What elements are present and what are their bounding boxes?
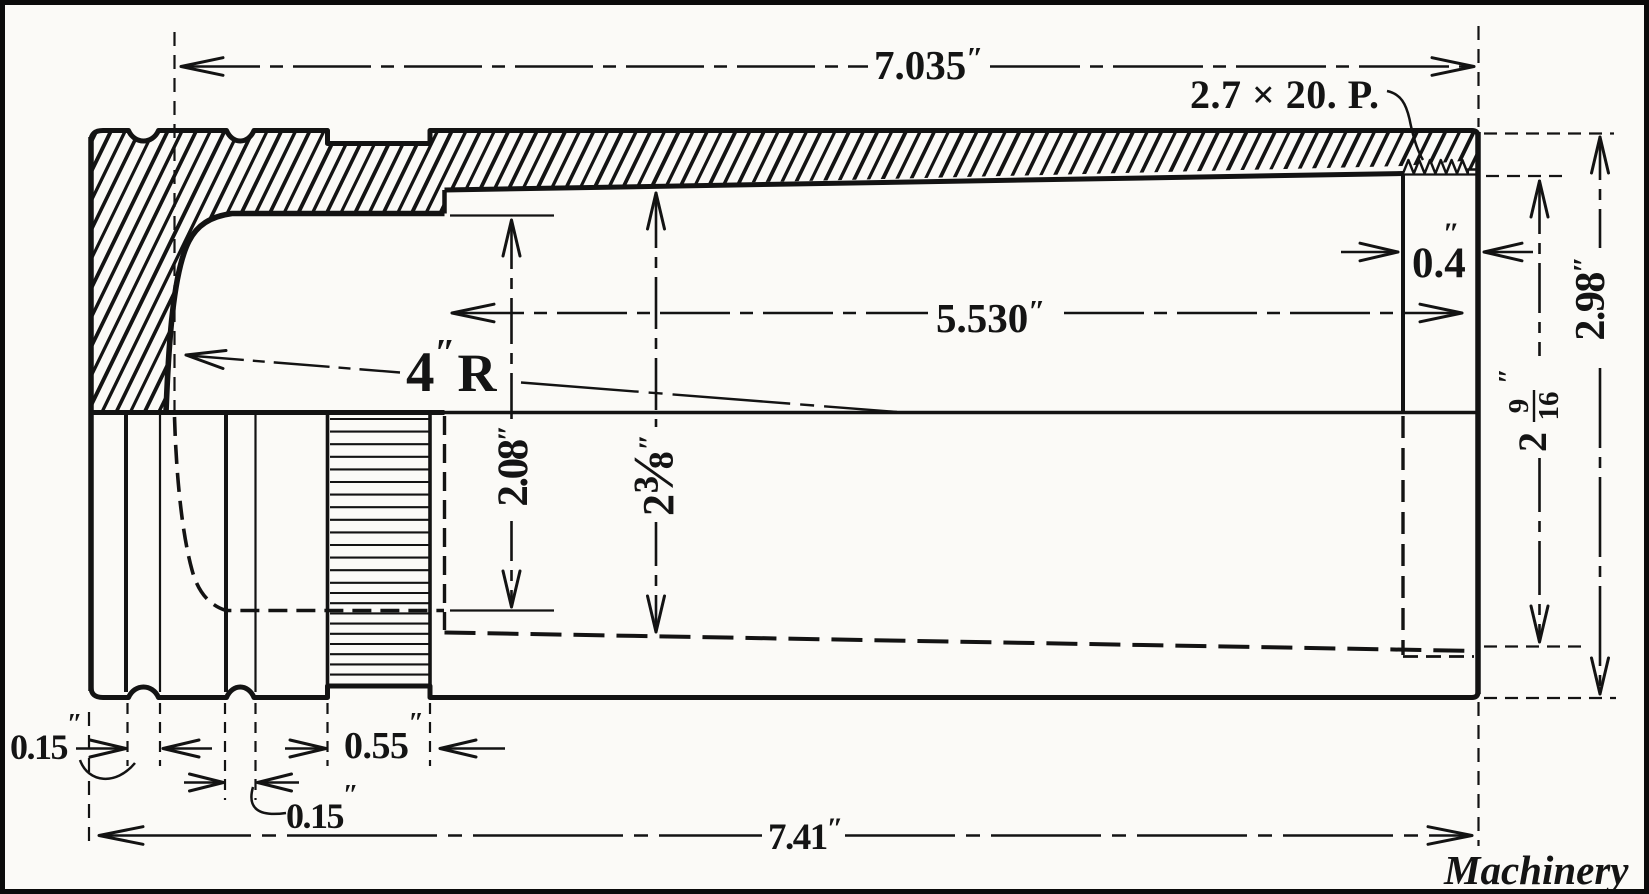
arrowhead 2.08 top: [503, 220, 520, 256]
arrowhead 0.4 left: [1360, 243, 1398, 261]
hidden bore step: [443, 416, 446, 630]
bore step at start of taper: [442, 190, 447, 214]
arrowhead 0.55 right: [440, 740, 476, 757]
arrowhead 7.41 right: [1428, 827, 1472, 845]
arrow shaft 0.55 left: [285, 747, 323, 750]
extension line 2.08 top: [450, 214, 554, 216]
leader curve 2.7x20P: [1387, 91, 1423, 160]
extension 2.98 top: [1484, 132, 1614, 134]
dimension line 2-3/8 lower: [655, 522, 658, 629]
right end face: [1475, 132, 1481, 694]
dimension text 2-3/8 (rotated): [621, 434, 686, 516]
arrow shaft 0.4 left: [1341, 251, 1396, 254]
dimension text 2.98 (rotated): [1566, 257, 1614, 340]
svg-text:16: 16: [1533, 392, 1565, 421]
arrowhead 0.4 right: [1484, 243, 1522, 261]
arrowhead 7.035 left: [181, 58, 223, 76]
arrow shaft 0.15 groove1 left: [76, 747, 122, 750]
extension band left: [326, 703, 328, 766]
arrowhead 2-3/8 bottom: [648, 596, 665, 632]
arrow shaft groove1 right: [165, 747, 212, 750]
left end face: [88, 137, 94, 691]
tapered bore line: [445, 174, 1404, 191]
arrowhead 2.08 bottom: [503, 571, 520, 607]
part outer top edge with grooves and relief band: [91, 131, 1478, 144]
svg-text:″: ″: [1443, 217, 1460, 250]
svg-text:2.7 × 20. P.: 2.7 × 20. P.: [1190, 72, 1380, 117]
thread profile 2.7 x 20 P: [1403, 160, 1476, 174]
leader arc 0.15 groove1: [80, 760, 135, 779]
dimension line 7.41 right part: [845, 834, 1470, 837]
dimension line 5.530 right part: [1064, 312, 1460, 315]
dimension line 2.08 lower: [510, 521, 513, 604]
extension groove1 left: [126, 703, 128, 766]
dimension line 7.41 left part: [101, 834, 762, 837]
hidden thread root lower: [1403, 655, 1474, 658]
arrow shaft 0.55 right: [442, 747, 505, 750]
thread band fine lines: [330, 419, 429, 675]
extension line 7.035 left: [173, 32, 175, 411]
arrowhead 2-9/16 top: [1531, 181, 1548, 217]
extension 2-9/16 bottom: [1484, 645, 1582, 647]
arrow shaft 0.15 groove2 left: [184, 781, 219, 784]
extension 2.98 bottom: [1484, 697, 1616, 699]
groove 1 right edge: [159, 415, 161, 692]
extension 2-9/16 top: [1486, 175, 1566, 177]
arrowhead groove1 right: [163, 740, 199, 757]
arrowhead 7.41 left: [99, 827, 143, 845]
svg-text:Machinery: Machinery: [1443, 847, 1629, 893]
arrowhead 2.98 bottom: [1592, 658, 1609, 694]
extension groove2 left: [224, 703, 226, 800]
svg-text:2: 2: [1510, 432, 1555, 452]
centerline (thin): [445, 411, 1479, 415]
arrow shaft 0.15 groove2 right: [260, 781, 300, 784]
section hatching: [0, 124, 1649, 424]
arrowhead 5.530 left: [452, 304, 494, 322]
svg-text:″: ″: [1493, 368, 1525, 384]
part outer bottom edge with grooves and relief band: [91, 686, 1478, 698]
arrowhead 2-9/16 bottom: [1531, 606, 1548, 642]
extension line 7.41 left: [88, 712, 90, 841]
dimension line 2.98 upper: [1599, 140, 1602, 248]
leader 4R left part: [188, 356, 400, 373]
arrow shaft 0.4 right: [1486, 251, 1533, 254]
dimension line 7.035 right part: [990, 65, 1472, 68]
leader hook 0.15 groove2: [251, 787, 286, 814]
arrowhead 5.530 right: [1420, 304, 1462, 322]
arrowhead groove1 left: [90, 740, 126, 757]
hidden taper line lower: [445, 633, 1479, 652]
groove 2 left edge: [224, 415, 228, 692]
arrowhead 2.98 top: [1592, 137, 1609, 173]
hidden thread step: [1401, 416, 1404, 655]
dimension line 2-3/8 upper: [655, 196, 658, 427]
leader 4R right part: [521, 383, 897, 413]
dimension text 2.08 (rotated): [490, 427, 537, 506]
centerline section edge (thick): [91, 410, 445, 415]
dimension text 2-9/16 (rotated): [1493, 368, 1565, 452]
svg-text:9: 9: [1503, 399, 1535, 414]
arrowhead groove2 left: [190, 774, 224, 791]
inner 4in radius curve and small bore line: [166, 214, 445, 413]
extension band right: [429, 703, 431, 766]
thread root line: [1403, 173, 1476, 175]
dimension line 7.035 left part: [182, 65, 868, 68]
taper/thread step visible line: [1401, 175, 1405, 413]
arrowhead 0.55 left: [290, 740, 326, 757]
dimension line 2-9/16 lower: [1538, 458, 1541, 639]
arrowhead 2-3/8 top: [648, 193, 665, 229]
arrowhead groove2 right: [258, 774, 292, 791]
arrowhead 4R leader: [186, 351, 226, 369]
groove 2 right edge: [254, 415, 256, 692]
hidden small bore curve and bore line: [175, 417, 445, 611]
arrowhead 7.035 right: [1432, 58, 1474, 76]
extension line right bottom: [1477, 702, 1479, 846]
extension line right top: [1477, 26, 1479, 127]
extension line 2.08 bottom: [450, 609, 554, 611]
dimension line 2.98 lower: [1599, 368, 1602, 691]
extension groove1 right: [159, 703, 161, 766]
dimension line 2.08 upper: [510, 223, 513, 426]
threaded band right edge: [428, 415, 432, 686]
threaded band left edge: [326, 415, 330, 686]
dimension line 2-9/16 upper: [1538, 184, 1541, 356]
groove 1 left edge: [124, 415, 128, 692]
dimension line 5.530 left part: [454, 312, 928, 315]
extension groove2 right: [254, 703, 256, 800]
